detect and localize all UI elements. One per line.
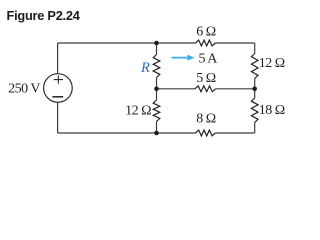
label 5 ohm <box>196 71 216 86</box>
wire: inner branch lead (node b to 12 ohm) <box>156 89 158 100</box>
wire: bottom wire left segment (bottom-left corner to node d) <box>58 132 157 134</box>
wire: left branch bottom (source to bottom wire) <box>57 102 59 133</box>
wire: top wire left segment (left corner to node a) <box>58 42 157 44</box>
wire: inner branch lead (resistor R to node b) <box>156 78 158 89</box>
wire: middle wire left segment (node b to 5 ohm) <box>157 88 196 90</box>
resistor 5 ohm (horizontal, middle wire) <box>195 86 216 92</box>
wire: middle wire right segment (5 ohm to node c) <box>216 88 255 90</box>
label 12 ohm (right branch) <box>259 56 285 71</box>
label 5 A <box>199 51 219 66</box>
svg-text:R: R <box>140 60 150 76</box>
label 18 ohm <box>259 103 285 118</box>
wire: right branch segment (12 ohm to node c) <box>254 79 256 99</box>
resistor R (vertical, inner branch) <box>153 55 160 78</box>
label 12 ohm (inner branch) <box>125 104 151 119</box>
resistor 12 ohm (vertical, inner branch lower) <box>153 100 160 122</box>
label 8 ohm <box>196 112 216 127</box>
wire: inner branch lead (node a to resistor R) <box>156 43 158 55</box>
resistor 6 ohm (horizontal, top wire) <box>196 40 216 46</box>
wire: inner branch lead (12 ohm to node d) <box>156 122 158 134</box>
voltage source Vs 250 V (circle with plus and minus) <box>44 74 73 103</box>
node a (junction dot, top of inner branch) <box>154 41 159 46</box>
svg-text:5 A: 5 A <box>199 51 219 66</box>
label R <box>140 60 150 76</box>
node b (junction dot, middle wire left) <box>154 87 159 92</box>
wire: right branch top lead (corner to 12 ohm) <box>254 43 256 54</box>
resistor 18 ohm (vertical, right branch lower) <box>251 98 258 123</box>
wire: left branch top (source to top wire) <box>57 43 59 74</box>
svg-text:12 Ω: 12 Ω <box>259 56 285 71</box>
wire: bottom wire middle segment (node d to 8 ohm) <box>157 132 196 134</box>
label 250 V <box>8 82 40 97</box>
svg-text:8 Ω: 8 Ω <box>196 112 216 127</box>
svg-text:6 Ω: 6 Ω <box>196 25 216 40</box>
svg-text:Figure P2.24: Figure P2.24 <box>7 8 81 23</box>
svg-text:18 Ω: 18 Ω <box>259 103 285 118</box>
svg-text:12 Ω: 12 Ω <box>125 104 151 119</box>
resistor 12 ohm (vertical, right branch upper) <box>251 54 258 79</box>
node d (junction dot, bottom wire) <box>154 131 159 136</box>
resistor 8 ohm (horizontal, bottom wire) <box>196 130 216 136</box>
wire: top wire right segment (6 ohm to top-right corner) <box>215 42 254 44</box>
node c (junction dot, middle wire right) <box>252 87 257 92</box>
wire: right branch bottom lead (18 ohm to bottom-right corner) <box>254 123 256 134</box>
svg-text:5 Ω: 5 Ω <box>196 71 216 86</box>
current arrow 5 A (cyan) <box>172 55 195 61</box>
label 6 ohm <box>196 25 216 40</box>
figure title "Figure P2.24" <box>7 8 81 23</box>
svg-text:250 V: 250 V <box>8 82 40 97</box>
wire: top wire middle segment (node a to 6 ohm) <box>157 42 196 44</box>
wire: bottom wire right segment (8 ohm to bottom-right corner) <box>215 132 254 134</box>
